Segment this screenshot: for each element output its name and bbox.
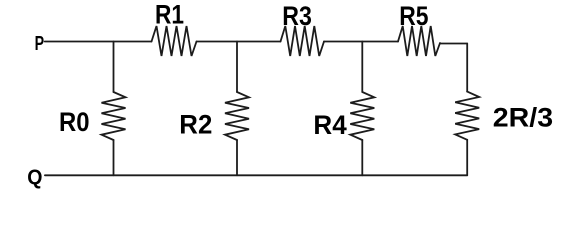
svg-text:R3: R3 [282, 1, 312, 31]
wire R0 branch upper [113, 42, 115, 93]
wire top rail R5 to right corner [440, 43, 467, 45]
resistor R3 [281, 26, 325, 56]
svg-text:2R/3: 2R/3 [493, 103, 553, 133]
resistor R5 [398, 26, 440, 56]
svg-text:P: P [35, 32, 45, 55]
wire top rail P to R1 [45, 41, 152, 43]
wire R4 branch lower [361, 140, 363, 175]
svg-text:R2: R2 [179, 110, 212, 140]
wire top rail R3 to R5 [324, 41, 398, 43]
svg-text:R4: R4 [313, 110, 346, 140]
resistor R4 [350, 92, 374, 140]
wire R2 branch lower [236, 140, 238, 175]
resistor R0 [102, 92, 126, 140]
wire R2 branch upper [236, 42, 238, 93]
wire R0 branch lower [113, 140, 115, 175]
svg-text:Q: Q [27, 166, 42, 189]
wire top rail R1 to R3 [197, 41, 281, 43]
wire R4 branch upper [361, 42, 363, 93]
svg-text:R1: R1 [155, 0, 184, 29]
svg-text:R0: R0 [59, 107, 90, 137]
wire right branch upper [466, 44, 468, 92]
wire right branch lower [466, 140, 468, 176]
wire bottom rail Q [45, 174, 467, 176]
resistor 2R/3 [455, 92, 479, 140]
resistor R2 [225, 92, 249, 140]
resistor R1 [152, 26, 197, 56]
svg-text:R5: R5 [399, 1, 428, 31]
